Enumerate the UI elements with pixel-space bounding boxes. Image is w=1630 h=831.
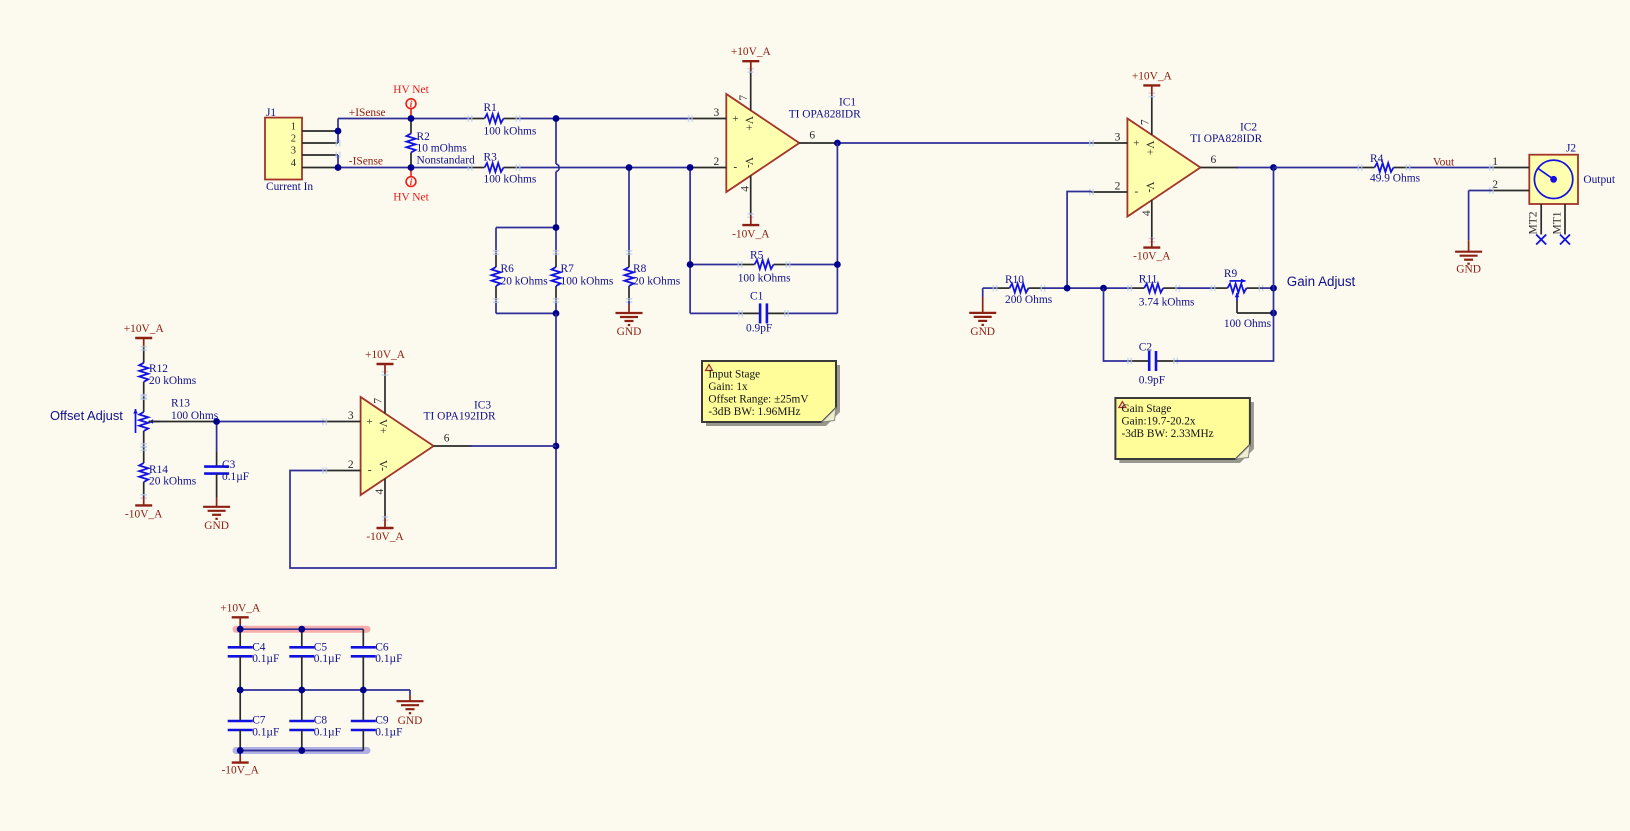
svg-text:100 Ohms: 100 Ohms: [171, 410, 219, 422]
svg-text:-ISense: -ISense: [349, 156, 383, 168]
svg-text:V-: V-: [742, 157, 754, 168]
svg-text:4: 4: [291, 158, 297, 169]
svg-text:HV Net: HV Net: [393, 84, 429, 96]
svg-text:100 kOhms: 100 kOhms: [484, 173, 537, 185]
svg-text:C1: C1: [750, 290, 764, 302]
svg-text:IC1: IC1: [839, 96, 856, 108]
svg-text:+10V_A: +10V_A: [365, 349, 406, 361]
svg-text:Current In: Current In: [266, 181, 313, 193]
svg-text:Offset Range: ±25mV: Offset Range: ±25mV: [708, 394, 809, 406]
svg-text:7: 7: [738, 95, 750, 101]
svg-text:+: +: [732, 113, 738, 125]
svg-text:20 kOhms: 20 kOhms: [501, 276, 549, 288]
svg-text:3: 3: [714, 107, 720, 119]
svg-text:-3dB BW: 1.96MHz: -3dB BW: 1.96MHz: [708, 406, 800, 418]
svg-text:-: -: [733, 161, 737, 173]
svg-text:Nonstandard: Nonstandard: [417, 155, 476, 167]
svg-text:-: -: [368, 464, 372, 476]
svg-text:+ISense: +ISense: [349, 107, 386, 119]
svg-text:2: 2: [714, 156, 720, 168]
svg-text:C9: C9: [375, 715, 389, 727]
svg-text:4: 4: [374, 489, 386, 495]
svg-text:V+: V+: [1144, 141, 1156, 156]
svg-text:MT1: MT1: [1552, 211, 1564, 234]
svg-text:200 Ohms: 200 Ohms: [1005, 294, 1053, 306]
svg-text:0.1µF: 0.1µF: [375, 726, 402, 738]
svg-text:R13: R13: [171, 398, 190, 410]
svg-text:Vout: Vout: [1433, 157, 1455, 169]
svg-text:V-: V-: [1144, 182, 1156, 193]
svg-text:3: 3: [291, 146, 296, 157]
svg-text:4: 4: [1141, 210, 1153, 216]
svg-text:V+: V+: [377, 419, 389, 434]
svg-text:100 kOhms: 100 kOhms: [484, 125, 537, 137]
svg-text:10 mOhms: 10 mOhms: [417, 143, 468, 155]
svg-text:Input Stage: Input Stage: [708, 369, 760, 381]
svg-text:+10V_A: +10V_A: [124, 323, 165, 335]
svg-text:R1: R1: [484, 102, 498, 114]
svg-text:49.9 Ohms: 49.9 Ohms: [1370, 173, 1421, 185]
svg-text:100 kOhms: 100 kOhms: [561, 276, 614, 288]
svg-text:2: 2: [1115, 181, 1121, 193]
svg-text:R6: R6: [501, 263, 515, 275]
svg-text:C2: C2: [1139, 341, 1153, 353]
svg-text:R5: R5: [750, 249, 764, 261]
svg-text:HV Net: HV Net: [393, 192, 429, 204]
svg-text:2: 2: [291, 134, 296, 145]
svg-text:R11: R11: [1139, 273, 1158, 285]
svg-text:R14: R14: [149, 464, 168, 476]
svg-text:GND: GND: [204, 520, 229, 532]
svg-text:C4: C4: [252, 642, 266, 654]
svg-text:R2: R2: [417, 131, 431, 143]
svg-text:+: +: [366, 416, 372, 428]
svg-text:2: 2: [348, 459, 354, 471]
svg-text:Gain Adjust: Gain Adjust: [1287, 274, 1356, 289]
svg-text:V-: V-: [377, 460, 389, 471]
svg-text:Offset Adjust: Offset Adjust: [50, 408, 123, 423]
svg-text:GND: GND: [617, 326, 642, 338]
svg-text:7: 7: [1139, 119, 1151, 125]
svg-text:R12: R12: [149, 363, 168, 375]
svg-text:C6: C6: [375, 642, 389, 654]
svg-text:0.1µF: 0.1µF: [314, 653, 341, 665]
svg-text:-10V_A: -10V_A: [125, 508, 163, 520]
svg-text:-10V_A: -10V_A: [222, 764, 260, 776]
svg-text:R7: R7: [561, 263, 575, 275]
svg-text:IC2: IC2: [1240, 121, 1257, 133]
svg-text:R8: R8: [633, 263, 647, 275]
svg-text:0.1µF: 0.1µF: [252, 653, 279, 665]
svg-text:3.74 kOhms: 3.74 kOhms: [1139, 296, 1195, 308]
svg-text:0.1µF: 0.1µF: [222, 471, 249, 483]
svg-text:6: 6: [809, 130, 815, 142]
svg-text:C5: C5: [314, 642, 328, 654]
svg-text:Gain:19.7-20.2x: Gain:19.7-20.2x: [1122, 416, 1196, 428]
svg-text:4: 4: [740, 186, 752, 192]
svg-text:Gain: 1x: Gain: 1x: [708, 381, 748, 393]
svg-text:6: 6: [444, 433, 450, 445]
svg-text:GND: GND: [970, 326, 995, 338]
svg-text:R3: R3: [484, 152, 498, 164]
svg-text:3: 3: [348, 410, 354, 422]
svg-text:7: 7: [373, 398, 385, 404]
svg-text:-10V_A: -10V_A: [366, 531, 404, 543]
svg-text:GND: GND: [1456, 264, 1481, 276]
svg-text:C8: C8: [314, 715, 328, 727]
svg-text:+10V_A: +10V_A: [731, 46, 772, 58]
svg-text:20 kOhms: 20 kOhms: [149, 375, 197, 387]
svg-text:TI OPA828IDR: TI OPA828IDR: [1190, 133, 1262, 145]
svg-text:+: +: [1133, 137, 1139, 149]
svg-text:1: 1: [291, 122, 296, 133]
svg-text:-3dB BW: 2.33MHz: -3dB BW: 2.33MHz: [1122, 428, 1214, 440]
svg-text:C3: C3: [222, 459, 236, 471]
svg-text:V+: V+: [742, 116, 754, 131]
svg-text:-10V_A: -10V_A: [1133, 251, 1171, 263]
svg-text:TI OPA828IDR: TI OPA828IDR: [789, 108, 861, 120]
svg-text:+10V_A: +10V_A: [220, 602, 261, 614]
svg-text:0.1µF: 0.1µF: [375, 653, 402, 665]
svg-text:C7: C7: [252, 715, 266, 727]
svg-text:Output: Output: [1583, 174, 1615, 186]
svg-text:R10: R10: [1005, 274, 1024, 286]
svg-text:0.9pF: 0.9pF: [1139, 375, 1165, 387]
svg-text:0.1µF: 0.1µF: [314, 726, 341, 738]
svg-text:6: 6: [1211, 154, 1217, 166]
svg-text:TI OPA192IDR: TI OPA192IDR: [424, 410, 496, 422]
svg-text:R9: R9: [1224, 268, 1238, 280]
svg-text:R4: R4: [1370, 153, 1384, 165]
svg-text:0.9pF: 0.9pF: [746, 322, 772, 334]
svg-text:Gain Stage: Gain Stage: [1122, 403, 1172, 415]
svg-text:MT2: MT2: [1528, 211, 1540, 234]
svg-text:0.1µF: 0.1µF: [252, 726, 279, 738]
svg-text:+10V_A: +10V_A: [1132, 70, 1173, 82]
svg-text:-: -: [1135, 186, 1139, 198]
svg-text:20 kOhms: 20 kOhms: [149, 476, 197, 488]
svg-text:100 Ohms: 100 Ohms: [1224, 318, 1272, 330]
svg-text:3: 3: [1115, 132, 1121, 144]
svg-text:100 kOhms: 100 kOhms: [738, 272, 791, 284]
svg-text:J1: J1: [266, 107, 276, 119]
svg-text:GND: GND: [398, 715, 423, 727]
svg-text:J2: J2: [1566, 142, 1576, 154]
svg-text:-10V_A: -10V_A: [732, 228, 770, 240]
svg-text:20 kOhms: 20 kOhms: [633, 276, 681, 288]
